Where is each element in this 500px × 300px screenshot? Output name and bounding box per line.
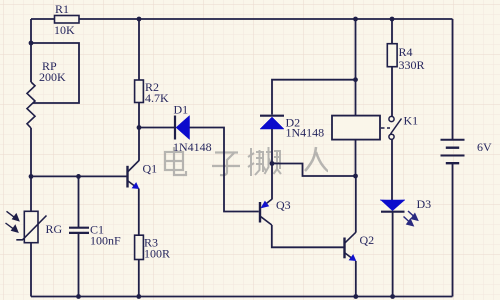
RG light arrows	[6, 211, 19, 232]
svg-text:D1: D1	[174, 103, 189, 117]
diode D1	[175, 116, 190, 140]
junction R4 top rail	[390, 17, 395, 22]
wire D2 cathode lead down	[271, 129, 273, 164]
wire right rail lower (battery to bottom)	[452, 164, 454, 297]
svg-text:10K: 10K	[54, 23, 75, 37]
svg-text:Q2: Q2	[360, 233, 375, 247]
junction left vertical x base wire	[29, 174, 34, 179]
wire Q1 collector	[138, 128, 140, 161]
svg-text:100R: 100R	[144, 247, 170, 261]
wire top rail	[31, 18, 453, 20]
junction relay bottom / Q2 collector node	[353, 174, 358, 179]
junction relay branch top rail	[353, 17, 358, 22]
transistor Q2	[345, 232, 357, 261]
wire RP wiper loop	[31, 43, 79, 103]
photoresistor RG	[16, 211, 46, 242]
resistor R2	[135, 19, 144, 128]
svg-text:330R: 330R	[399, 58, 425, 72]
watermark char 子	[212, 153, 240, 176]
wire K1 to D3	[391, 140, 393, 201]
resistor R1	[55, 16, 80, 24]
watermark char 人	[305, 147, 328, 171]
wire D2 node to relay bottom	[272, 164, 356, 177]
wire Q2 emitter down	[355, 261, 357, 297]
svg-text:4.7K: 4.7K	[145, 91, 169, 105]
wire relay feed from top rail	[355, 19, 357, 116]
wire right rail upper (to battery)	[452, 19, 454, 139]
wire relay coil bottom lead	[355, 140, 357, 176]
resistor R4	[387, 19, 397, 116]
svg-text:200K: 200K	[39, 70, 66, 84]
D3 light arrows	[404, 211, 418, 226]
capacitor C1	[69, 176, 89, 296]
junction R3 bottom rail	[136, 294, 141, 299]
svg-text:100nF: 100nF	[90, 234, 121, 248]
wire Q1 emitter to R3	[138, 189, 140, 236]
wire R3 bottom lead	[138, 260, 140, 297]
wire Q2 collector up	[355, 176, 357, 233]
wire RP lower lead to RG	[30, 128, 32, 211]
watermark char 电	[165, 147, 186, 175]
wire D1 to Q3 base	[190, 128, 259, 212]
junction node RP top	[29, 41, 34, 46]
transistor Q3	[260, 199, 272, 225]
svg-text:Q3: Q3	[276, 198, 291, 212]
LED D3	[380, 200, 405, 212]
wire D2 feed horizontal	[272, 80, 356, 115]
relay linkage dashed line	[381, 127, 390, 129]
junction C1 bottom rail	[76, 294, 81, 299]
svg-text:D3: D3	[417, 197, 432, 211]
watermark char 懒	[248, 147, 281, 176]
junction R2 top rail	[137, 17, 142, 22]
svg-text:6V: 6V	[477, 140, 492, 154]
wire D1 anode lead	[139, 127, 175, 129]
junction D2/Q3 node	[270, 161, 275, 166]
wire Q3 collector to Q2 base	[272, 225, 344, 247]
junction C1 tap	[76, 174, 81, 179]
wire left branch upper (top rail to RP)	[30, 19, 32, 82]
battery BT1	[441, 140, 465, 163]
svg-text:1N4148: 1N4148	[173, 140, 212, 154]
potentiometer RP (zigzag element)	[27, 82, 35, 128]
svg-text:R1: R1	[55, 2, 69, 16]
svg-text:R4: R4	[399, 45, 413, 59]
wire Q3 emitter up	[271, 164, 273, 200]
resistor R3	[135, 235, 144, 259]
wire D3 cathode lead	[392, 212, 394, 297]
svg-text:Q1: Q1	[143, 162, 158, 176]
wire RG bottom lead	[30, 243, 32, 297]
svg-text:1N4148: 1N4148	[286, 126, 325, 140]
relay coil K1	[332, 116, 380, 140]
svg-text:RG: RG	[46, 222, 63, 236]
diode D2	[260, 116, 284, 129]
junction D3 bottom rail	[390, 294, 395, 299]
switch K1 contacts	[389, 116, 402, 139]
svg-text:K1: K1	[404, 114, 419, 128]
junction relay/D2 tee	[353, 77, 358, 82]
junction Q2 emitter bottom rail	[353, 294, 358, 299]
wire Q1 base net (node A horizontal)	[31, 175, 127, 177]
transistor Q1	[128, 161, 140, 190]
junction R2/D1 node	[137, 125, 142, 130]
wire bottom rail	[31, 296, 453, 298]
